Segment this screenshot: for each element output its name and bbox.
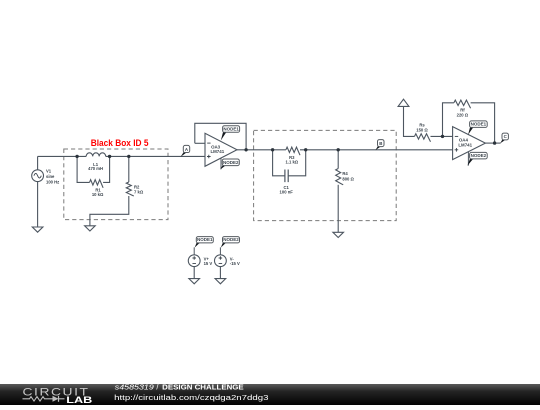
svg-text:1.1 kΩ: 1.1 kΩ	[285, 160, 298, 165]
svg-text:NODE2: NODE2	[471, 153, 487, 158]
svg-text:B: B	[379, 141, 382, 146]
svg-text:LAB: LAB	[66, 395, 92, 405]
svg-text:800 Ω: 800 Ω	[342, 177, 354, 182]
svg-text:LM741: LM741	[210, 149, 224, 154]
svg-text:Black Box ID 5: Black Box ID 5	[91, 138, 149, 148]
svg-text:220 Ω: 220 Ω	[457, 113, 469, 118]
svg-text:NODE2: NODE2	[223, 160, 239, 165]
svg-text:NODE1: NODE1	[197, 237, 213, 242]
svg-text:V1: V1	[46, 168, 52, 173]
svg-text:s4585319: s4585319	[115, 383, 154, 392]
svg-text:sine: sine	[46, 174, 55, 179]
svg-text:Rf: Rf	[460, 108, 465, 113]
svg-text:http://circuitlab.com/czqdga2n: http://circuitlab.com/czqdga2n7ddg3	[114, 393, 268, 402]
svg-text:Rs: Rs	[419, 122, 425, 127]
svg-text:R4: R4	[342, 171, 348, 176]
svg-text:-15 V: -15 V	[230, 261, 240, 266]
svg-text:NODE1: NODE1	[471, 122, 487, 127]
svg-text:15 V: 15 V	[204, 261, 213, 266]
svg-text:R2: R2	[134, 185, 140, 190]
svg-text:7 kΩ: 7 kΩ	[134, 190, 144, 195]
svg-text:NODE2: NODE2	[223, 237, 239, 242]
svg-text:100 Hz: 100 Hz	[46, 179, 59, 184]
svg-text:10 kΩ: 10 kΩ	[92, 192, 104, 197]
svg-text:R1: R1	[95, 187, 101, 192]
svg-text:470 mH: 470 mH	[88, 166, 103, 171]
svg-text:NODE1: NODE1	[223, 127, 239, 132]
svg-text:LM741: LM741	[458, 142, 472, 147]
svg-text:150 Ω: 150 Ω	[416, 127, 428, 132]
svg-text:100 nF: 100 nF	[280, 190, 294, 195]
svg-text:DESIGN CHALLENGE: DESIGN CHALLENGE	[162, 383, 244, 392]
